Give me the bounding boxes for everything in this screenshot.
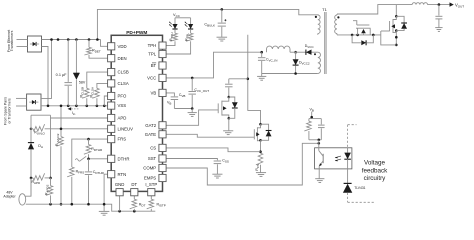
svg-text:CBULK: CBULK xyxy=(204,23,215,28)
svg-text:GND: GND xyxy=(115,182,125,187)
svg-text:TPH: TPH xyxy=(148,43,157,48)
svg-text:CVC_IN: CVC_IN xyxy=(266,58,277,63)
svg-text:RTPH: RTPH xyxy=(169,32,174,40)
svg-text:DVCC2: DVCC2 xyxy=(299,61,310,66)
svg-text:RDT: RDT xyxy=(139,203,146,208)
svg-text:RUVLO2: RUVLO2 xyxy=(55,133,60,146)
svg-text:LINEUV: LINEUV xyxy=(118,126,134,131)
svg-text:RAPD: RAPD xyxy=(32,180,42,185)
svg-text:PD+PWM: PD+PWM xyxy=(126,30,147,36)
svg-text:VDD: VDD xyxy=(118,44,127,49)
svg-text:CLSB: CLSB xyxy=(118,70,129,75)
svg-text:58V: 58V xyxy=(79,81,86,85)
svg-text:or Transformers: or Transformers xyxy=(8,98,12,124)
svg-text:RDTHR: RDTHR xyxy=(91,147,103,152)
svg-text:PFO: PFO xyxy=(118,94,127,99)
svg-text:DEN: DEN xyxy=(118,56,127,61)
svg-text:COMP: COMP xyxy=(143,166,156,171)
svg-text:RCS: RCS xyxy=(255,164,260,171)
svg-text:CSS: CSS xyxy=(222,159,229,164)
svg-text:DA: DA xyxy=(38,144,43,149)
svg-text:circuitry: circuitry xyxy=(364,175,387,182)
svg-text:VCC: VCC xyxy=(173,13,181,18)
svg-text:CVB: CVB xyxy=(179,93,186,98)
svg-text:CLSA: CLSA xyxy=(118,81,129,86)
svg-text:RTN: RTN xyxy=(118,172,127,177)
svg-text:VCC: VCC xyxy=(147,76,156,81)
svg-text:T1: T1 xyxy=(322,7,327,12)
svg-text:Transformers: Transformers xyxy=(10,30,14,51)
svg-text:Adapter: Adapter xyxy=(3,195,16,199)
svg-text:EMPS: EMPS xyxy=(144,176,156,181)
svg-text:0.1 µF: 0.1 µF xyxy=(56,73,68,77)
svg-text:RAPD2: RAPD2 xyxy=(45,184,50,195)
svg-text:VSS: VSS xyxy=(118,103,127,108)
svg-text:feedback: feedback xyxy=(362,167,388,174)
svg-text:TLV431: TLV431 xyxy=(354,186,365,190)
svg-text:RFRS: RFRS xyxy=(76,169,85,174)
svg-text:VB: VB xyxy=(309,107,313,112)
svg-text:APD: APD xyxy=(118,116,127,121)
svg-text:CDTHR: CDTHR xyxy=(93,170,105,175)
svg-text:DTHR: DTHR xyxy=(118,156,130,161)
svg-text:RCLSB: RCLSB xyxy=(79,87,84,97)
svg-text:RUVLO: RUVLO xyxy=(34,131,45,136)
svg-text:RCLSA: RCLSA xyxy=(90,87,95,97)
svg-text:GAT2: GAT2 xyxy=(145,123,157,128)
svg-text:RDET: RDET xyxy=(92,49,101,54)
svg-text:Voltage: Voltage xyxy=(364,160,386,167)
svg-text:VB: VB xyxy=(167,101,171,106)
svg-text:BT: BT xyxy=(151,63,157,68)
svg-text:Iin: Iin xyxy=(72,111,76,116)
svg-text:TPL: TPL xyxy=(148,52,156,57)
svg-text:CVC_OUT: CVC_OUT xyxy=(194,88,209,93)
svg-text:CS: CS xyxy=(150,146,156,151)
svg-text:DVCC: DVCC xyxy=(305,44,315,49)
svg-text:I_STP: I_STP xyxy=(145,182,157,187)
svg-text:SST: SST xyxy=(148,156,157,161)
svg-text:VB: VB xyxy=(150,91,156,96)
svg-text:GATE: GATE xyxy=(145,132,157,137)
svg-text:VOUT: VOUT xyxy=(455,2,464,8)
svg-text:RISTP: RISTP xyxy=(157,203,166,208)
svg-text:DT: DT xyxy=(131,182,137,187)
svg-text:RTPL: RTPL xyxy=(184,33,189,41)
svg-text:FRS: FRS xyxy=(118,137,127,142)
